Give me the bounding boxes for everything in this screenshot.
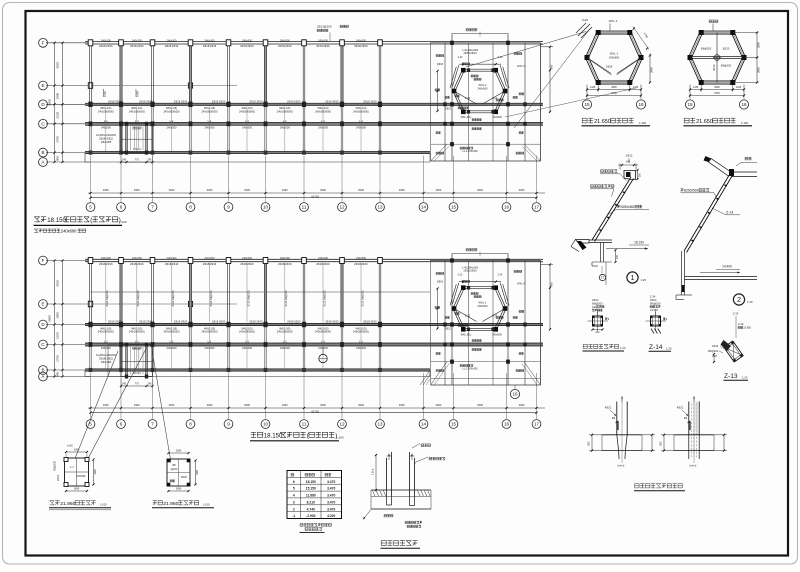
svg-text:15.150: 15.150 bbox=[306, 487, 316, 491]
svg-text:240x300: 240x300 bbox=[167, 125, 178, 129]
svg-text:240: 240 bbox=[626, 160, 631, 164]
plan2 tower column marks bbox=[443, 258, 526, 363]
svg-text:15: 15 bbox=[451, 205, 457, 210]
svg-text:240x600: 240x600 bbox=[492, 334, 502, 337]
svg-text:14: 14 bbox=[421, 205, 427, 210]
parapet detail section bbox=[588, 310, 610, 334]
plan1 vertical beam axis 11 bbox=[303, 42, 305, 154]
plan2 column at D/axis 12 bbox=[340, 322, 344, 327]
svg-text:900: 900 bbox=[550, 64, 554, 69]
plan1 axis bubble 7 bbox=[148, 203, 157, 212]
plan1 leader note 2 bbox=[136, 89, 140, 97]
plan1 column at D/axis 11 bbox=[302, 102, 306, 107]
svg-text:2Φ18;2Φ16: 2Φ18;2Φ16 bbox=[240, 44, 254, 48]
svg-text:WXL-1: WXL-1 bbox=[479, 301, 487, 305]
svg-text:WKL-5(1): WKL-5(1) bbox=[461, 116, 472, 119]
svg-text:4200: 4200 bbox=[56, 280, 60, 287]
svg-text:21.650: 21.650 bbox=[696, 119, 713, 125]
svg-text:13: 13 bbox=[377, 205, 383, 210]
svg-text:13: 13 bbox=[377, 422, 383, 427]
plan1 axis bubble 13 bbox=[376, 203, 385, 212]
plan2 extra axis bubble bbox=[510, 385, 519, 399]
svg-text:11: 11 bbox=[302, 205, 307, 210]
svg-text:1-3 1-4: 1-3 1-4 bbox=[133, 372, 142, 375]
section-1 ridge cap bbox=[618, 154, 641, 181]
svg-text:240x500(600): 240x500(600) bbox=[98, 109, 114, 113]
svg-text:L-1: L-1 bbox=[359, 340, 363, 344]
svg-text:L-1: L-1 bbox=[359, 119, 363, 123]
svg-text:21.650: 21.650 bbox=[650, 308, 658, 312]
svg-text:2-5 2-6: 2-5 2-6 bbox=[133, 348, 142, 351]
svg-text:18.150: 18.150 bbox=[306, 480, 316, 484]
svg-text:21.950: 21.950 bbox=[163, 501, 178, 507]
plan1 column at B/axis 7 bbox=[151, 151, 155, 155]
plan2 column at F/axis 6 bbox=[119, 258, 124, 264]
svg-text:240x500(600): 240x500(600) bbox=[315, 330, 331, 334]
plan1 room note text bbox=[96, 134, 116, 144]
svg-text:16: 16 bbox=[638, 102, 644, 107]
svg-text:4200: 4200 bbox=[56, 62, 60, 69]
svg-text:8.210: 8.210 bbox=[307, 500, 315, 504]
plan2 room note text bbox=[96, 354, 116, 364]
svg-text:240x300: 240x300 bbox=[280, 256, 291, 260]
plan2 axis bubble 14 bbox=[419, 420, 428, 429]
svg-text:A: A bbox=[41, 374, 44, 379]
svg-text:2100: 2100 bbox=[56, 112, 60, 119]
svg-text:240x300: 240x300 bbox=[280, 125, 291, 129]
svg-text:L-1: L-1 bbox=[208, 340, 212, 344]
svg-text:245: 245 bbox=[122, 159, 127, 162]
svg-text:900: 900 bbox=[56, 156, 60, 161]
plan2 bottom grid lines and dimensions bbox=[88, 373, 545, 419]
svg-text:16: 16 bbox=[512, 392, 518, 397]
plan1 column at F/axis 5 bbox=[88, 40, 93, 46]
svg-text:240x500(600): 240x500(600) bbox=[315, 109, 331, 113]
coltop-1 dimensions bbox=[588, 406, 655, 452]
plan1 column at C/axis 7 bbox=[151, 121, 155, 126]
svg-text:2Φ18 2Φ20: 2Φ18 2Φ20 bbox=[249, 100, 263, 104]
svg-text:2Φ8: 2Φ8 bbox=[712, 355, 717, 358]
svg-text:240x300: 240x300 bbox=[242, 38, 253, 42]
svg-text:Z-13: Z-13 bbox=[733, 312, 739, 316]
plan2 axis bubble 8 bbox=[186, 420, 195, 429]
svg-text:3.470: 3.470 bbox=[327, 500, 335, 504]
plan2 column at F/axis 10 bbox=[263, 258, 268, 264]
plan1 leader note 1 bbox=[103, 89, 107, 97]
section-1 axis bubble bbox=[599, 266, 605, 281]
svg-text:4.740: 4.740 bbox=[307, 507, 315, 511]
plan1 tower corner eave braces bbox=[431, 144, 541, 161]
svg-text:1:100: 1:100 bbox=[741, 121, 748, 125]
plan1 column at B/axis 9 bbox=[227, 151, 231, 155]
svg-text:1:20: 1:20 bbox=[641, 278, 647, 282]
svg-text:2Φ18: 2Φ18 bbox=[437, 63, 444, 66]
svg-text:2Φ18;2Φ16: 2Φ18;2Φ16 bbox=[240, 262, 254, 266]
svg-text:2Φ18 2Φ20: 2Φ18 2Φ20 bbox=[212, 100, 226, 104]
svg-text:9: 9 bbox=[227, 422, 230, 427]
plan2 axis bubble 12 bbox=[338, 420, 347, 429]
svg-text:7: 7 bbox=[151, 205, 154, 210]
svg-text:1890: 1890 bbox=[196, 469, 199, 475]
svg-text:300: 300 bbox=[638, 172, 641, 177]
plan1 mid-bay secondary beams bbox=[106, 106, 361, 151]
svg-text:1:100: 1:100 bbox=[336, 436, 344, 440]
svg-text:17: 17 bbox=[534, 422, 540, 427]
svg-text:41700: 41700 bbox=[311, 194, 319, 198]
plan2 secondary mid beam bbox=[91, 291, 431, 293]
svg-text:L-1: L-1 bbox=[208, 119, 212, 123]
plan2 column at D/axis 11 bbox=[302, 322, 306, 327]
svg-text:3300: 3300 bbox=[436, 188, 442, 192]
plan2 column at B/axis 9 bbox=[227, 368, 231, 372]
plan2 column at B/axis 13 bbox=[378, 368, 382, 372]
plan2 column at D/axis 10 bbox=[263, 322, 267, 327]
svg-text:Φ8@200: Φ8@200 bbox=[54, 461, 57, 471]
svg-text:L-1: L-1 bbox=[104, 340, 108, 344]
svg-text:3300: 3300 bbox=[103, 188, 109, 192]
plan1 vertical beam axis 10 bbox=[264, 42, 266, 154]
plan1 column at D/axis 5 bbox=[88, 102, 92, 107]
svg-text:2Φ18;2Φ16: 2Φ18;2Φ16 bbox=[316, 262, 330, 266]
svg-text:3.470: 3.470 bbox=[327, 487, 335, 491]
svg-text:18.150: 18.150 bbox=[634, 241, 644, 245]
svg-text:1-3 1-4: 1-3 1-4 bbox=[133, 148, 142, 151]
Z-13 rotated column section bbox=[708, 183, 743, 363]
plan1 column at F/axis 6 bbox=[119, 40, 124, 46]
Z-14 caption bbox=[649, 344, 672, 351]
svg-text:3300: 3300 bbox=[519, 188, 525, 192]
plan2 left dimension lines bbox=[46, 259, 91, 377]
plan2 column at D/axis 13 bbox=[378, 322, 382, 327]
svg-text:6: 6 bbox=[120, 422, 123, 427]
svg-text:1890: 1890 bbox=[176, 450, 182, 453]
section-2 eave and ridge beam bbox=[704, 156, 758, 177]
plan2 vertical beam axis 11 bbox=[303, 259, 305, 371]
svg-text:1445: 1445 bbox=[736, 86, 742, 89]
section-1 label waterproof bbox=[600, 170, 627, 181]
anchorage table caption bbox=[300, 524, 332, 533]
svg-text:2Φ18;2Φ16: 2Φ18;2Φ16 bbox=[278, 262, 292, 266]
hex-detail-1 hexagon corner columns bbox=[585, 30, 644, 85]
plan1 caption bbox=[34, 217, 127, 234]
plan1 tower column marks bbox=[443, 41, 526, 147]
svg-text:B250x500: B250x500 bbox=[621, 205, 636, 209]
plan1 axis bubble 10 bbox=[261, 203, 270, 212]
beam-column joint caption bbox=[381, 541, 421, 549]
svg-text:240x600: 240x600 bbox=[492, 116, 502, 119]
coltop-1 column axis bbox=[621, 396, 623, 463]
svg-text:1:100: 1:100 bbox=[203, 503, 210, 507]
plan2 beam on axis B bbox=[85, 369, 430, 371]
plan2 column at B/axis 11 bbox=[302, 368, 306, 372]
svg-text:2-13: 2-13 bbox=[465, 96, 471, 100]
svg-text:240x300: 240x300 bbox=[356, 125, 367, 129]
svg-text:14.400: 14.400 bbox=[722, 265, 732, 269]
svg-text:2Φ18 2Φ20: 2Φ18 2Φ20 bbox=[287, 320, 301, 324]
plan1 column at D/axis 6 bbox=[119, 102, 123, 107]
plan2 axis bubble 7 bbox=[148, 420, 157, 429]
plan1 column at D/axis 12 bbox=[340, 102, 344, 107]
svg-text:10: 10 bbox=[263, 205, 269, 210]
svg-text:2Φ18;2Φ16: 2Φ18;2Φ16 bbox=[130, 44, 144, 48]
plan2 vertical beam axis 9 bbox=[228, 259, 230, 371]
hex-detail-1 hexagon interior bbox=[587, 52, 641, 76]
plan1 column at C/axis 10 bbox=[264, 121, 268, 126]
svg-text:240x500(600): 240x500(600) bbox=[277, 109, 293, 113]
section-1 eave gutter bbox=[571, 240, 589, 252]
svg-text:B: B bbox=[41, 150, 44, 155]
plan1 column at B/axis 6 bbox=[119, 151, 123, 155]
svg-text:2: 2 bbox=[293, 507, 295, 511]
svg-text:L-1: L-1 bbox=[321, 340, 325, 344]
anchorage table bbox=[287, 471, 342, 519]
svg-text:2Φ18;2Φ16: 2Φ18;2Φ16 bbox=[99, 44, 113, 48]
plan1 column at C/axis 8 bbox=[189, 121, 193, 126]
svg-text:2Φ18 2Φ20: 2Φ18 2Φ20 bbox=[108, 100, 122, 104]
plan1 vertical beam axis 7 bbox=[152, 42, 154, 154]
plan1 beam on axis D bbox=[85, 103, 543, 105]
svg-text:6: 6 bbox=[120, 205, 123, 210]
coltop-1 rebar hook bbox=[612, 417, 618, 430]
svg-text:2-14: 2-14 bbox=[492, 96, 498, 100]
svg-text:9: 9 bbox=[227, 205, 230, 210]
svg-text:3300: 3300 bbox=[169, 403, 175, 407]
hex-detail-2 hexagon corner columns bbox=[688, 30, 747, 85]
svg-text:6: 6 bbox=[293, 480, 295, 484]
svg-text:240: 240 bbox=[596, 331, 601, 334]
svg-text:L-1: L-1 bbox=[135, 119, 139, 123]
svg-text:Z-14: Z-14 bbox=[650, 295, 656, 299]
plan1 axis bubble 5 bbox=[86, 203, 95, 212]
svg-text:2100: 2100 bbox=[56, 332, 60, 339]
plan1 tower inner dims bbox=[436, 63, 501, 112]
plan2 tower hexagon inner braces bbox=[454, 301, 505, 322]
svg-text:3300: 3300 bbox=[320, 188, 326, 192]
svg-text:240x300: 240x300 bbox=[132, 256, 143, 260]
plan2 grid line E stub bbox=[88, 301, 237, 307]
plan2 column at C/axis 10 bbox=[264, 342, 268, 347]
svg-text:240x300: 240x300 bbox=[167, 256, 178, 260]
plan2 tower side dimension bbox=[541, 263, 554, 330]
svg-text:B120 Φ8@200: B120 Φ8@200 bbox=[106, 290, 109, 307]
plan1 axis bubble 9 bbox=[224, 203, 233, 212]
svg-text:WXL-1: WXL-1 bbox=[610, 52, 619, 56]
svg-text:1890: 1890 bbox=[94, 469, 97, 475]
svg-text:1500: 1500 bbox=[136, 91, 140, 97]
svg-text:3300: 3300 bbox=[399, 188, 405, 192]
plan2 axis bubble 16 bbox=[502, 420, 511, 429]
svg-text:15: 15 bbox=[584, 102, 590, 107]
plan1 column at D/axis 10 bbox=[263, 102, 267, 107]
plan2 column at D/axis 9 bbox=[226, 322, 230, 327]
plan2 vertical beam axis 8 bbox=[189, 259, 191, 371]
svg-text:4Φ22: 4Φ22 bbox=[677, 406, 684, 410]
Z-14 section bbox=[646, 310, 668, 334]
coltop caption bbox=[634, 484, 685, 491]
hex-detail-1 caption bbox=[582, 118, 651, 126]
svg-text:3300: 3300 bbox=[358, 188, 364, 192]
svg-text:2Φ18 2Φ20: 2Φ18 2Φ20 bbox=[108, 320, 122, 324]
plan2 stair shaft bbox=[108, 343, 153, 379]
plan2 column at C/axis 12 bbox=[340, 342, 344, 347]
coltop-2 beam band bbox=[674, 435, 714, 451]
plan1 column at D/axis 13 bbox=[378, 102, 382, 107]
svg-text:Φ8@200: Φ8@200 bbox=[701, 47, 712, 51]
plan2 vertical beam axis 10 bbox=[264, 259, 266, 371]
svg-text:3.470: 3.470 bbox=[327, 494, 335, 498]
plan1 axis bubble 14 bbox=[419, 203, 428, 212]
plan2 column at F/axis 12 bbox=[340, 258, 345, 264]
svg-text:8: 8 bbox=[189, 422, 192, 427]
plan1 column at B/axis 8 bbox=[189, 151, 193, 155]
svg-text:B120 Φ8@200: B120 Φ8@200 bbox=[248, 290, 251, 307]
svg-text:B120: B120 bbox=[712, 64, 716, 71]
plan1 beam on axis B bbox=[85, 152, 430, 154]
svg-text:245: 245 bbox=[148, 159, 153, 162]
svg-text:240x300: 240x300 bbox=[205, 38, 216, 42]
svg-text:b×h-b: b×h-b bbox=[618, 464, 625, 468]
plan2 axis bubble 15 bbox=[449, 420, 458, 429]
plan2 column at C/axis 9 bbox=[227, 342, 231, 347]
svg-text:240x500(600): 240x500(600) bbox=[353, 109, 369, 113]
svg-text:L-1: L-1 bbox=[245, 119, 249, 123]
svg-text:3.470: 3.470 bbox=[327, 507, 335, 511]
svg-text:3300: 3300 bbox=[207, 188, 213, 192]
svg-text:Z-13: Z-13 bbox=[738, 322, 744, 326]
plan2 beam on axis F bbox=[85, 259, 543, 261]
svg-text:3300: 3300 bbox=[477, 403, 483, 407]
plan1 column at C/axis 6 bbox=[119, 121, 123, 126]
plan2 stair dimension bbox=[120, 379, 154, 389]
section-1 dim 150 bbox=[614, 249, 619, 263]
coltop-1 beam band bbox=[602, 435, 642, 451]
plan2 column at D/axis 8 bbox=[188, 322, 192, 327]
svg-text:1Φ12: 1Φ12 bbox=[626, 154, 633, 158]
plan2 caption bbox=[250, 432, 344, 441]
svg-text:2-13: 2-13 bbox=[458, 274, 463, 277]
svg-text:B120 Φ8@200: B120 Φ8@200 bbox=[362, 290, 365, 307]
svg-text:Z-14: Z-14 bbox=[649, 344, 663, 351]
svg-text:2-14: 2-14 bbox=[498, 274, 503, 277]
svg-text:B100: B100 bbox=[181, 476, 187, 479]
plan1 axis bubble 11 bbox=[300, 203, 309, 212]
plan2 tower top stub label bbox=[466, 249, 480, 257]
svg-text:9600: 9600 bbox=[48, 99, 52, 106]
svg-text:3300: 3300 bbox=[103, 403, 109, 407]
plan2 column at C/axis 11 bbox=[302, 342, 306, 347]
svg-text:5780: 5780 bbox=[611, 92, 617, 95]
svg-text:240x500(600): 240x500(600) bbox=[163, 330, 179, 334]
svg-text:2Φ18;2Φ16: 2Φ18;2Φ16 bbox=[278, 44, 292, 48]
plan2 row bubbles F-A bbox=[39, 256, 48, 265]
plan1 axis bubble 16 bbox=[502, 203, 511, 212]
plan2 axis bubble 13 bbox=[376, 420, 385, 429]
svg-text:2Φ18: 2Φ18 bbox=[606, 65, 613, 69]
svg-text:L-1: L-1 bbox=[321, 119, 325, 123]
svg-text:3300: 3300 bbox=[399, 403, 405, 407]
plan2 column at C/axis 8 bbox=[189, 342, 193, 347]
plan1 column at F/axis 12 bbox=[340, 40, 345, 46]
svg-text:2Φ18;2Φ16: 2Φ18;2Φ16 bbox=[203, 44, 217, 48]
plan1 tower horizontals bbox=[430, 34, 541, 162]
svg-text:245: 245 bbox=[148, 383, 153, 386]
svg-text:240x500(600): 240x500(600) bbox=[98, 330, 114, 334]
plan1 vertical beam axis 13 bbox=[379, 42, 381, 154]
hex-detail-1 hexagon ring beams bbox=[586, 31, 643, 84]
svg-text:900: 900 bbox=[56, 372, 60, 377]
plan2 tower annotation texts bbox=[435, 267, 525, 372]
svg-text:2-13: 2-13 bbox=[465, 314, 471, 318]
svg-text:WXL-3: WXL-3 bbox=[517, 65, 525, 68]
plan1 vertical beam axis 5 bbox=[90, 42, 92, 154]
svg-text:1445: 1445 bbox=[633, 86, 639, 89]
svg-text:(: ( bbox=[307, 433, 309, 440]
svg-text:2Φ18;2Φ16: 2Φ18;2Φ16 bbox=[130, 262, 144, 266]
plan2 axis bubble 17 bbox=[532, 420, 541, 429]
svg-text:3300: 3300 bbox=[282, 188, 288, 192]
plan1 beam on axis F bbox=[85, 42, 543, 44]
section-1 number circle bbox=[627, 272, 646, 283]
hex-detail-2 hexagon right dimension bbox=[733, 31, 761, 83]
svg-text:240x500(600): 240x500(600) bbox=[353, 330, 369, 334]
svg-text:2Φ18;2Φ16: 2Φ18;2Φ16 bbox=[203, 262, 217, 266]
svg-text:240x500: 240x500 bbox=[478, 304, 489, 308]
plan1 tower hexagon corner columns bbox=[452, 68, 508, 114]
plan1 tower hexagon inner braces bbox=[454, 83, 505, 104]
hex-detail-2 hexagon bottom dimensions bbox=[689, 85, 745, 98]
coltop-2 dimensions bbox=[660, 406, 727, 452]
plan2 column at B/axis 10 bbox=[264, 368, 268, 372]
coltop-2 size text bbox=[690, 464, 697, 468]
svg-text:500: 500 bbox=[660, 441, 663, 446]
detail-21.950-slab square bbox=[167, 459, 191, 487]
plan1 column at C/axis 11 bbox=[302, 121, 306, 126]
svg-text:240x500(600): 240x500(600) bbox=[277, 330, 293, 334]
svg-text:F: F bbox=[42, 258, 45, 263]
section-2 wall and floor bbox=[676, 251, 757, 300]
svg-text:15: 15 bbox=[451, 422, 457, 427]
plan1 column at B/axis 12 bbox=[340, 151, 344, 155]
svg-text:WKL-5(1): WKL-5(1) bbox=[461, 334, 472, 337]
svg-text:B120 Φ8@200: B120 Φ8@200 bbox=[285, 290, 288, 307]
svg-text:2Φ12@200: 2Φ12@200 bbox=[317, 25, 332, 29]
svg-text:WXL-2: WXL-2 bbox=[609, 19, 618, 23]
plan2 column at B/axis 12 bbox=[340, 368, 344, 372]
svg-text:1445: 1445 bbox=[693, 86, 699, 89]
hex-detail-2 hexagon interior bbox=[690, 33, 744, 83]
svg-text:3300: 3300 bbox=[358, 403, 364, 407]
parapet detail caption bbox=[583, 344, 626, 351]
svg-text:L-1: L-1 bbox=[170, 119, 174, 123]
svg-text:240x500(600): 240x500(600) bbox=[239, 109, 255, 113]
svg-text:240x500: 240x500 bbox=[609, 56, 620, 60]
plan2 vertical beam axis 5 bbox=[90, 259, 92, 371]
svg-text:B250x500: B250x500 bbox=[684, 189, 699, 193]
section-2 sloped roof beam bbox=[684, 172, 734, 253]
svg-text:LL-2 240x300: LL-2 240x300 bbox=[462, 150, 478, 153]
plan1 vertical beam axis 8 bbox=[189, 42, 191, 154]
svg-text:(: ( bbox=[90, 217, 92, 224]
svg-text:2Φ12: 2Φ12 bbox=[592, 298, 599, 302]
svg-text:2700: 2700 bbox=[56, 136, 60, 143]
svg-text:WXL-3: WXL-3 bbox=[517, 283, 525, 286]
hex-detail-2 caption bbox=[684, 118, 753, 126]
coltop-1 size text bbox=[618, 464, 625, 468]
plan2 column at F/axis 11 bbox=[302, 258, 307, 264]
plan2 column at C/axis 5 bbox=[89, 342, 93, 347]
plan1 tower outer verticals bbox=[431, 34, 541, 162]
svg-text:2Φ18 2Φ20: 2Φ18 2Φ20 bbox=[325, 100, 339, 104]
